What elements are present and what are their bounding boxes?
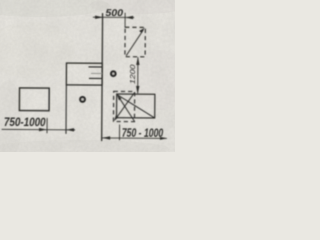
wall line <box>101 13 104 141</box>
500 arrow right-pointing <box>95 16 103 19</box>
desk left edge extension line <box>65 85 67 134</box>
desk rectangle <box>66 63 102 85</box>
knob dot on desk <box>80 97 85 102</box>
dashed square steep diagonal with arrowhead to top-left <box>117 95 135 122</box>
svg-text:750-1000: 750-1000 <box>4 115 46 129</box>
1200 arrow down-pointing <box>136 86 139 94</box>
diagonal arrow in top dashed square <box>126 27 145 56</box>
left dimension arrow left-pointing <box>66 128 74 131</box>
desk shelf line 3 <box>89 77 102 79</box>
svg-text:750 - 1000: 750 - 1000 <box>122 128 164 140</box>
desk shelf line 1 <box>88 66 102 68</box>
1200 arrow up-pointing <box>136 57 139 65</box>
left table rectangle <box>19 88 49 111</box>
left dimension line <box>2 128 75 131</box>
paper background <box>0 0 190 160</box>
extension line B <box>124 13 126 28</box>
knob dot right of wall <box>111 71 116 76</box>
500 arrow left-pointing <box>125 16 133 19</box>
right dimension arrow right-pointing at end <box>160 137 167 140</box>
svg-text:1200: 1200 <box>128 64 137 84</box>
left dimension arrow right-pointing <box>39 128 47 131</box>
top dashed square (chair position 1) <box>125 27 145 57</box>
bottom solid rectangle (table 2) <box>117 94 155 118</box>
dimension 1200 vertical line <box>137 57 139 93</box>
right dimension arrow left-pointing at wall <box>102 136 110 139</box>
dimension 500 line <box>93 16 134 18</box>
right dimension line <box>102 137 167 139</box>
desk shelf line 2 (faint) <box>91 72 102 74</box>
dashed square rising diagonal with arrowhead to bottom-left <box>114 93 134 122</box>
svg-text:500: 500 <box>105 7 123 19</box>
extension line C <box>118 125 120 141</box>
bottom dashed square (chair position 2) <box>113 91 134 121</box>
bottom solid rectangle diagonal <box>117 95 155 118</box>
extension line A <box>46 118 48 133</box>
